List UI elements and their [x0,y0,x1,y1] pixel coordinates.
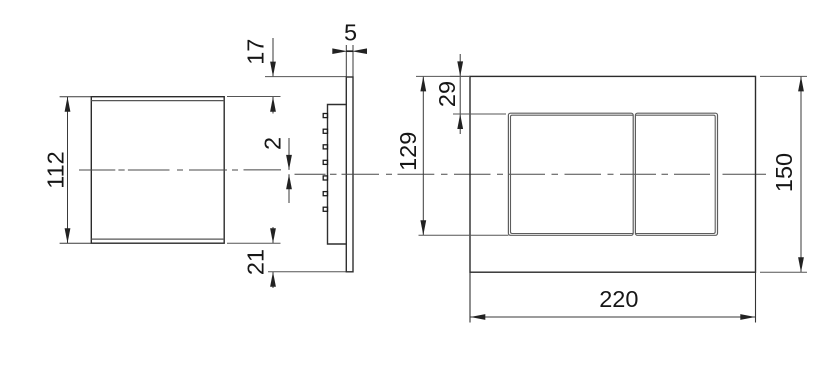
dimension 220 arrow left [470,314,485,320]
dimension 150 line [800,76,802,272]
front view: left button inner bevel [511,115,634,233]
side view: plate top extension line [265,76,346,78]
dimension 129 extension line top [416,75,470,77]
dimension 112 extension line top [60,96,92,98]
dimension 29 extension line top [450,75,470,77]
dimension 112 arrow up [65,97,71,112]
side view: mounting body [328,105,347,245]
front view: left button outer [508,113,633,235]
side view: clip teeth [323,114,327,212]
dimension 5 arrow left-pointing [352,48,367,54]
front view: plate outer rectangle [470,76,756,272]
dimension 220 line [470,316,756,318]
dimension 29 line upper with arrow down [459,54,461,76]
dimension 29 extension line bottom (button top) [453,113,506,115]
dimension 220 extension line right [755,272,757,322]
dimension 129 extension line bottom (button bottom) [419,234,509,236]
dimension 112 arrow down [65,228,71,243]
dimension 220 extension line left [469,272,471,322]
side view: plate (5mm profile) [346,77,353,272]
left view: inner top edge line [91,100,224,102]
svg-text:2: 2 [259,137,285,150]
dimension 29 line lower with arrow up [459,114,461,134]
dimension 129 line [422,76,424,235]
dimension 150 arrow down [798,257,804,272]
front view: right button outer [635,113,717,235]
svg-text:17: 17 [242,39,268,65]
svg-text:29: 29 [434,81,460,107]
svg-text:5: 5 [344,20,357,46]
dimension 29 cross segment [459,76,461,114]
dimension 5 extension line right [352,45,354,77]
dimension 150 extension line bottom [760,271,807,273]
centerline left (frame axis) [79,169,238,171]
dimension 150 arrow up [798,76,804,91]
svg-text:21: 21 [242,249,268,275]
dimension 21 line lower with arrow up [272,272,274,288]
dimension 129 arrow up [420,76,426,91]
left view: inner bottom edge line [91,238,224,240]
dimension 17 extension line (box top level) [227,96,281,98]
dimension 2 extension line right (plate axis) [295,173,326,175]
dimension 129 arrow down [420,220,426,235]
dimension 17 line upper with arrow down [272,38,274,77]
dimension 5 cross segment [346,50,353,52]
dimension 112 line [67,97,69,244]
svg-text:129: 129 [395,132,421,171]
centerline right (plate axis) [330,173,766,175]
side view: plate bottom extension line [268,271,346,273]
dimension 220 arrow right [740,314,755,320]
svg-text:112: 112 [42,151,68,188]
svg-text:150: 150 [771,153,797,192]
dimension 5 arrow right-pointing [332,48,347,54]
dimension 2 extension line left (frame axis) [244,169,282,171]
dimension 2 line upper with arrow down [288,138,290,170]
dimension 2 line lower with arrow up [288,174,290,203]
dimension 5 extension line left [345,45,347,77]
dimension 112 extension line bottom [60,242,92,244]
front view: right button inner bevel [635,115,715,233]
svg-text:220: 220 [599,286,638,312]
dimension 17 line lower with arrow up [272,97,274,114]
dimension 21 extension line (box bottom level) [227,242,281,244]
dimension 21 line upper with arrow down [272,227,274,243]
dimension 150 extension line top [760,75,807,77]
left view: frame box outline [91,97,224,244]
